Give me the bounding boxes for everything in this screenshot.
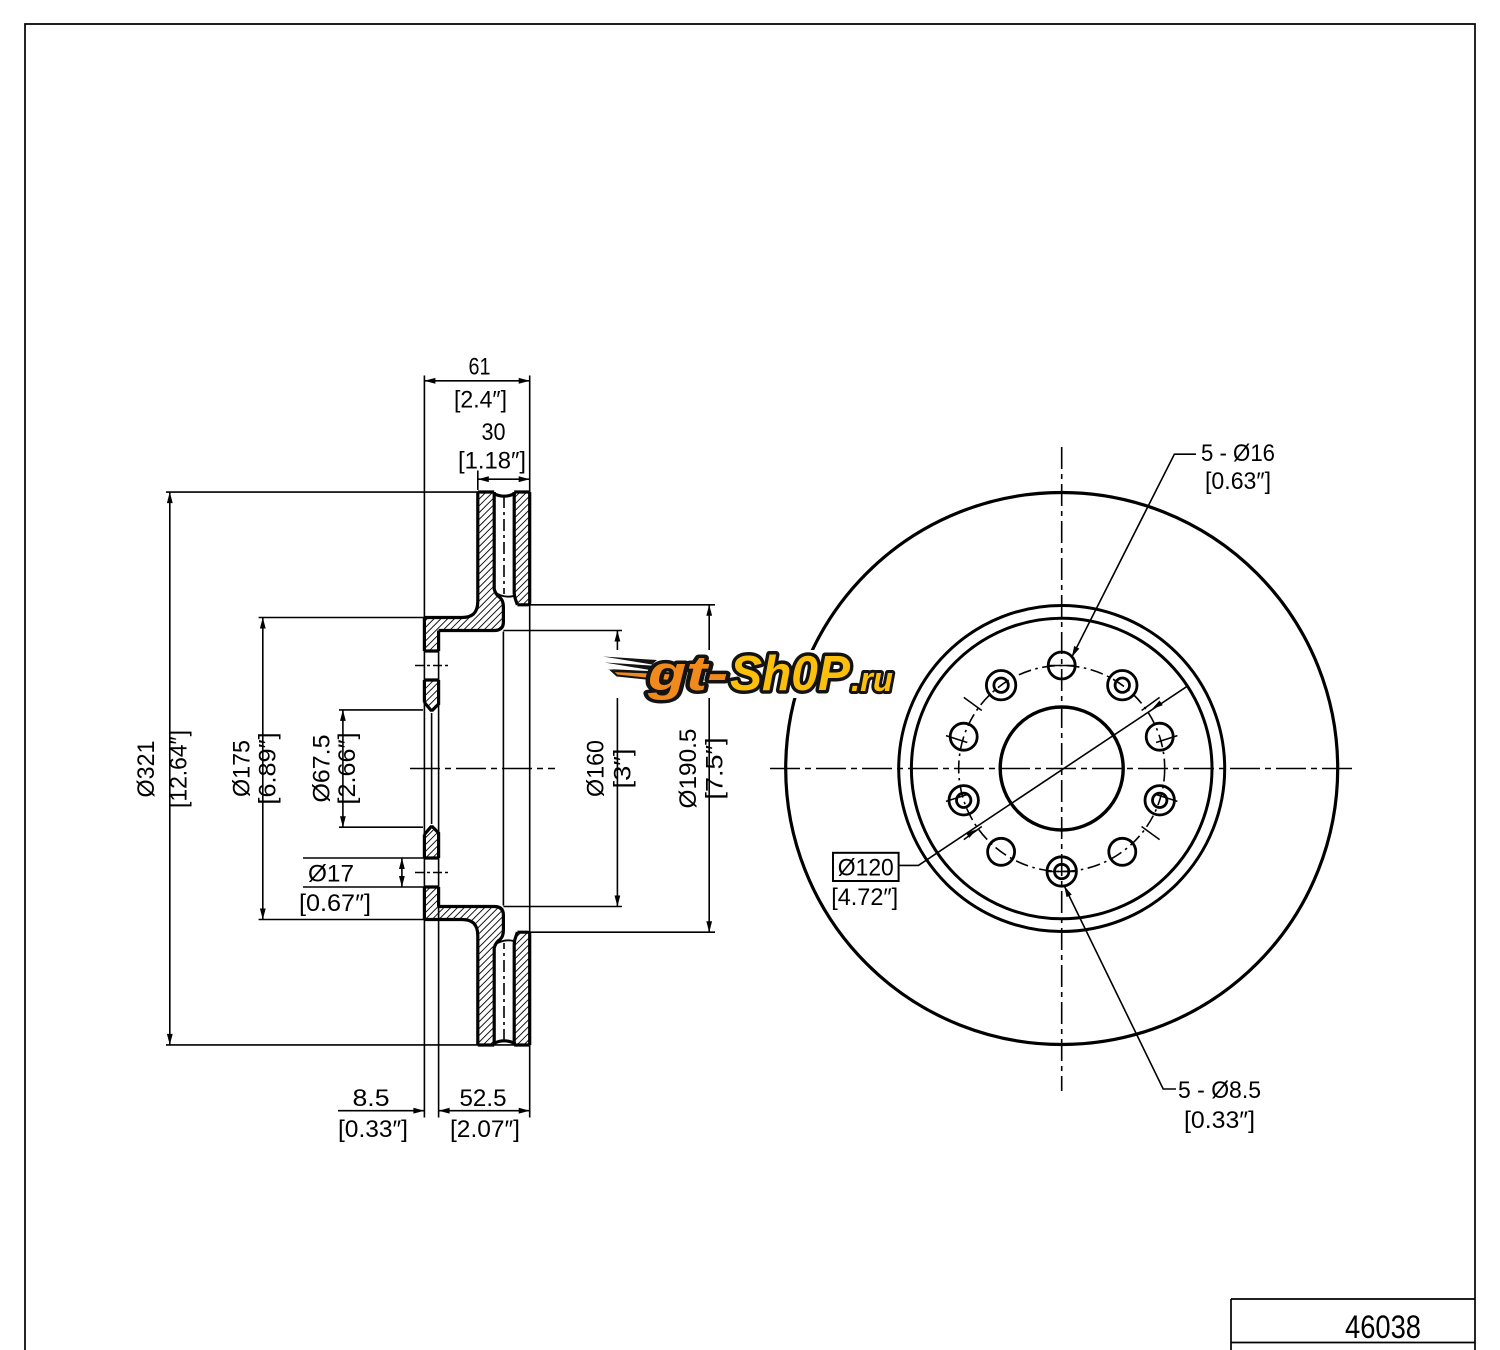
svg-text:8.5: 8.5 — [353, 1085, 390, 1112]
speed spikes — [603, 657, 659, 677]
stud hole Ø16 lower left — [988, 838, 1015, 865]
left pad right face + vent channel wall (lower) — [439, 907, 504, 1046]
dim Ø175 hat outer diameter — [259, 617, 426, 619]
dim Ø321 outer diameter — [166, 491, 478, 493]
svg-text:61: 61 — [469, 354, 491, 381]
radial centerline tick, hole at 126deg — [964, 697, 982, 710]
radial centerline tick, hole at 54deg — [1142, 697, 1160, 710]
projected edges (thin) — [424, 376, 529, 1118]
disc OD edge bottom — [478, 1043, 530, 1046]
five Ø16 stud holes — [950, 652, 1173, 865]
svg-text:[7.5″]: [7.5″] — [702, 738, 729, 800]
radial centerline tick, hole at 306deg — [1142, 827, 1160, 840]
bore chamfers and throat (upper) — [424, 680, 438, 710]
vent channel centerline (upper) — [503, 496, 505, 594]
disc right face (lower) — [528, 934, 531, 1045]
svg-text:[4.72″]: [4.72″] — [831, 884, 898, 911]
outboard pad inner face (upper) — [517, 603, 529, 605]
svg-text:30: 30 — [482, 419, 506, 446]
svg-text:Ø321: Ø321 — [133, 741, 160, 798]
svg-text:5 - Ø16: 5 - Ø16 — [1201, 440, 1275, 467]
dim 61 total width — [424, 380, 529, 382]
vane inner edge arc seen through vent (upper) — [494, 592, 514, 597]
stud hole edges (upper) — [424, 651, 438, 680]
svg-text:52.5: 52.5 — [460, 1085, 507, 1112]
svg-text:[2.07″]: [2.07″] — [450, 1116, 520, 1143]
svg-text:Ø17: Ø17 — [308, 861, 354, 888]
svg-text:[3″]: [3″] — [610, 749, 637, 789]
stud hole centerline (lower) — [415, 872, 448, 874]
counterbored hole Ø8.5 upper right — [1108, 671, 1137, 700]
hatch fill: hat flange between bore and stud hole (lower) — [424, 827, 438, 858]
radial centerline tick, hole at 234deg — [964, 827, 982, 840]
bore chamfer edge projected — [431, 713, 433, 824]
dim 8.5 hat flange thickness — [338, 1110, 424, 1112]
FRONT_VIEW — [598, 647, 898, 701]
Ø120 framed text — [833, 853, 899, 881]
horizontal centerline — [770, 768, 1353, 770]
hat flange left edge (lower) — [423, 835, 426, 920]
svg-text:[2.4″]: [2.4″] — [454, 387, 507, 414]
dim Ø17 stud hole — [303, 857, 424, 859]
left pad right face + vent channel wall (upper) — [439, 492, 504, 631]
leader 5-Ø16 — [1072, 454, 1196, 657]
disc outer circle Ø321 — [786, 493, 1338, 1045]
hatch fill: upper left pad + hat wall — [424, 492, 503, 631]
stud hole centerline (upper) — [415, 665, 448, 667]
extension line for 30 dim — [477, 471, 479, 491]
vertical centerline — [1061, 447, 1063, 1091]
vane inner edge arc seen through vent (lower) — [494, 940, 514, 945]
hat flange right edge (lower) — [437, 887, 440, 907]
svg-text:[0.33″]: [0.33″] — [1184, 1107, 1255, 1134]
hat wall end circle projected — [502, 632, 504, 906]
left pad left face + hat wall top face (upper) — [424, 492, 477, 618]
stud hole Ø16 top — [1048, 652, 1075, 679]
svg-text:[1.18″]: [1.18″] — [458, 448, 526, 475]
SECTION_VIEW — [770, 440, 1353, 1134]
thick outlines — [424, 492, 529, 1045]
svg-text:[2.66″]: [2.66″] — [334, 733, 361, 805]
disc right face (upper) — [528, 492, 531, 603]
centre bore circle Ø67.5 — [1000, 707, 1123, 830]
svg-text:Ø190.5: Ø190.5 — [675, 729, 702, 809]
hat outer circle Ø175 — [911, 618, 1212, 919]
stud hole Ø16 lower right — [1109, 838, 1136, 865]
five Ø8.5 holes with counterbore — [949, 671, 1174, 887]
hat face plane / extension line x=424.4 — [423, 376, 425, 1118]
counterbored hole Ø8.5 upper left — [986, 671, 1015, 700]
hatch fill: hat flange between stud hole and bore (upper) — [424, 680, 438, 710]
friction band inner circle Ø190.5 — [899, 606, 1225, 932]
svg-text:Ø160: Ø160 — [583, 740, 610, 797]
tangential tick, bottom hole — [1047, 871, 1076, 873]
svg-text:[12.64″]: [12.64″] — [166, 730, 193, 808]
hatch fill: lower outboard pad — [514, 932, 530, 1045]
bolt circle Ø120 (dash-dot) — [959, 666, 1165, 872]
hat flange left edge (upper) — [423, 618, 426, 703]
counterbored hole Ø8.5 bottom — [1047, 857, 1076, 886]
hat flange right edge (upper) — [437, 631, 440, 652]
dim 30 friction ring width — [478, 478, 530, 480]
radial centerline tick, hole at 162deg — [946, 736, 967, 743]
hatch fill: hat flange between stud hole and wall (lower) — [424, 887, 438, 907]
dim 52.5 hat depth — [439, 1110, 530, 1112]
dim Ø160 hat inner diameter — [503, 630, 622, 632]
hatch fill: hat flange between wall and stud hole (upper) — [424, 631, 438, 652]
dim Ø67.5 centre bore — [339, 709, 423, 711]
stud hole edges (lower) — [424, 858, 438, 887]
vent channel centerline (lower) — [503, 943, 505, 1041]
outboard pad vent-side face (lower) — [514, 932, 517, 1045]
stud hole Ø16 right — [1146, 723, 1173, 750]
svg-text:[0.33″]: [0.33″] — [338, 1116, 408, 1143]
svg-text:[0.67″]: [0.67″] — [299, 890, 371, 917]
svg-text:.ru: .ru — [851, 661, 893, 699]
bore chamfers and throat (lower) — [424, 827, 438, 858]
svg-text:Sh0P: Sh0P — [730, 647, 850, 701]
vent notch at OD top — [494, 492, 514, 496]
svg-text:Ø175: Ø175 — [229, 740, 256, 797]
radial centerline tick, hole at 18deg — [1156, 736, 1177, 743]
hatch fill: upper outboard pad — [514, 492, 530, 605]
orange streak — [612, 671, 676, 682]
svg-text:gt-: gt- — [647, 647, 728, 701]
main axis centerline — [410, 768, 555, 770]
vent notch at OD bottom — [494, 1041, 514, 1045]
left pad left face + hat wall bottom face (lower) — [424, 920, 477, 1046]
radial centerline tick, hole at 342deg — [1156, 795, 1177, 802]
hatch fill: lower left pad + hat wall — [424, 907, 503, 1046]
Ø120 bolt-circle dimension line — [899, 687, 1187, 866]
svg-text:[0.63″]: [0.63″] — [1205, 468, 1271, 495]
outboard pad inner face (lower) — [517, 932, 529, 934]
svg-text:[6.89″]: [6.89″] — [255, 733, 282, 805]
leader 5-Ø8.5 — [1064, 886, 1176, 1089]
disc right face plane / extension line x=529.7 — [529, 376, 531, 1118]
counterbored hole Ø8.5 lower right — [1145, 786, 1174, 815]
title block — [1231, 1299, 1475, 1350]
radial centerline tick, hole at 198deg — [946, 795, 967, 802]
disc OD edge top — [478, 490, 530, 493]
tangential tick, top hole — [1047, 665, 1076, 667]
outboard pad vent-side face (upper) — [514, 492, 517, 605]
counterbored hole Ø8.5 lower left — [949, 786, 978, 815]
dim Ø190.5 friction band inner diameter — [530, 604, 715, 606]
svg-text:Ø67.5: Ø67.5 — [309, 735, 336, 803]
stud hole Ø16 left — [950, 723, 977, 750]
svg-text:Ø120: Ø120 — [838, 855, 894, 882]
watermark background mask — [598, 650, 898, 698]
svg-text:5 - Ø8.5: 5 - Ø8.5 — [1178, 1077, 1261, 1104]
centerlines — [410, 496, 555, 1041]
hat face back plane / extension line x=438.6 — [438, 631, 440, 1118]
gt- text outline — [647, 647, 893, 701]
svg-text:46038: 46038 — [1345, 1309, 1421, 1345]
